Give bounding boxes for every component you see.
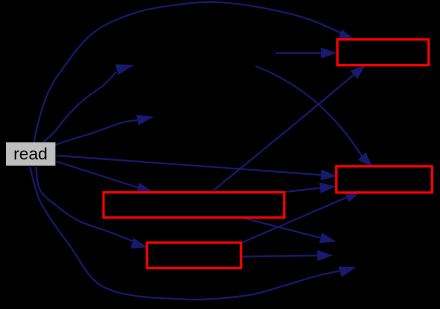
arrowhead read to node A: [115, 64, 134, 75]
arrowhead box3 to box2: [319, 183, 336, 194]
wire read to bottom-right node (long bottom curve): [30, 167, 341, 300]
svg-text:read: read: [13, 145, 47, 164]
arrowhead box3 to bottom hidden node: [319, 233, 336, 244]
wire top hidden node to box1: [276, 52, 321, 54]
wire box4 to box2: [241, 197, 347, 243]
arrowhead read to box3: [136, 183, 153, 194]
node box4 (bottom center, red): [147, 243, 241, 268]
arrowhead top hidden node to box2: [358, 152, 373, 167]
arrowhead box3 to box1: [350, 65, 366, 80]
wire box3 to box2: [285, 188, 320, 192]
wire box4 to bottom hidden node: [241, 256, 317, 257]
wire box3 to box1: [212, 75, 354, 192]
arrowhead top hidden node to box1: [321, 48, 337, 59]
wire read to node A: [43, 72, 116, 142]
arrowhead read to bottom-right node: [338, 267, 356, 278]
wire read to box4: [36, 167, 133, 241]
arrowhead read to box1: [338, 29, 355, 40]
wire read to box3: [57, 162, 138, 188]
wire read to node B: [55, 120, 139, 145]
wire read to box1 (long top curve): [34, 2, 341, 143]
node read (grey): [6, 142, 55, 165]
arrowhead read to node B: [136, 115, 154, 126]
node box3 (center, red): [104, 192, 285, 217]
arrowhead read to box4: [131, 238, 148, 249]
arrowhead box4 to box2: [345, 191, 362, 202]
arrowhead box4 to bottom hidden node: [317, 250, 333, 261]
wire box3 to bottom hidden node: [244, 218, 321, 238]
node box2 (middle right, red): [336, 166, 432, 192]
wire top hidden node to box2: [256, 66, 362, 156]
wire read to box2: [57, 156, 322, 175]
arrowhead read to box2: [321, 169, 337, 180]
node box1 (top right, red): [337, 39, 428, 65]
